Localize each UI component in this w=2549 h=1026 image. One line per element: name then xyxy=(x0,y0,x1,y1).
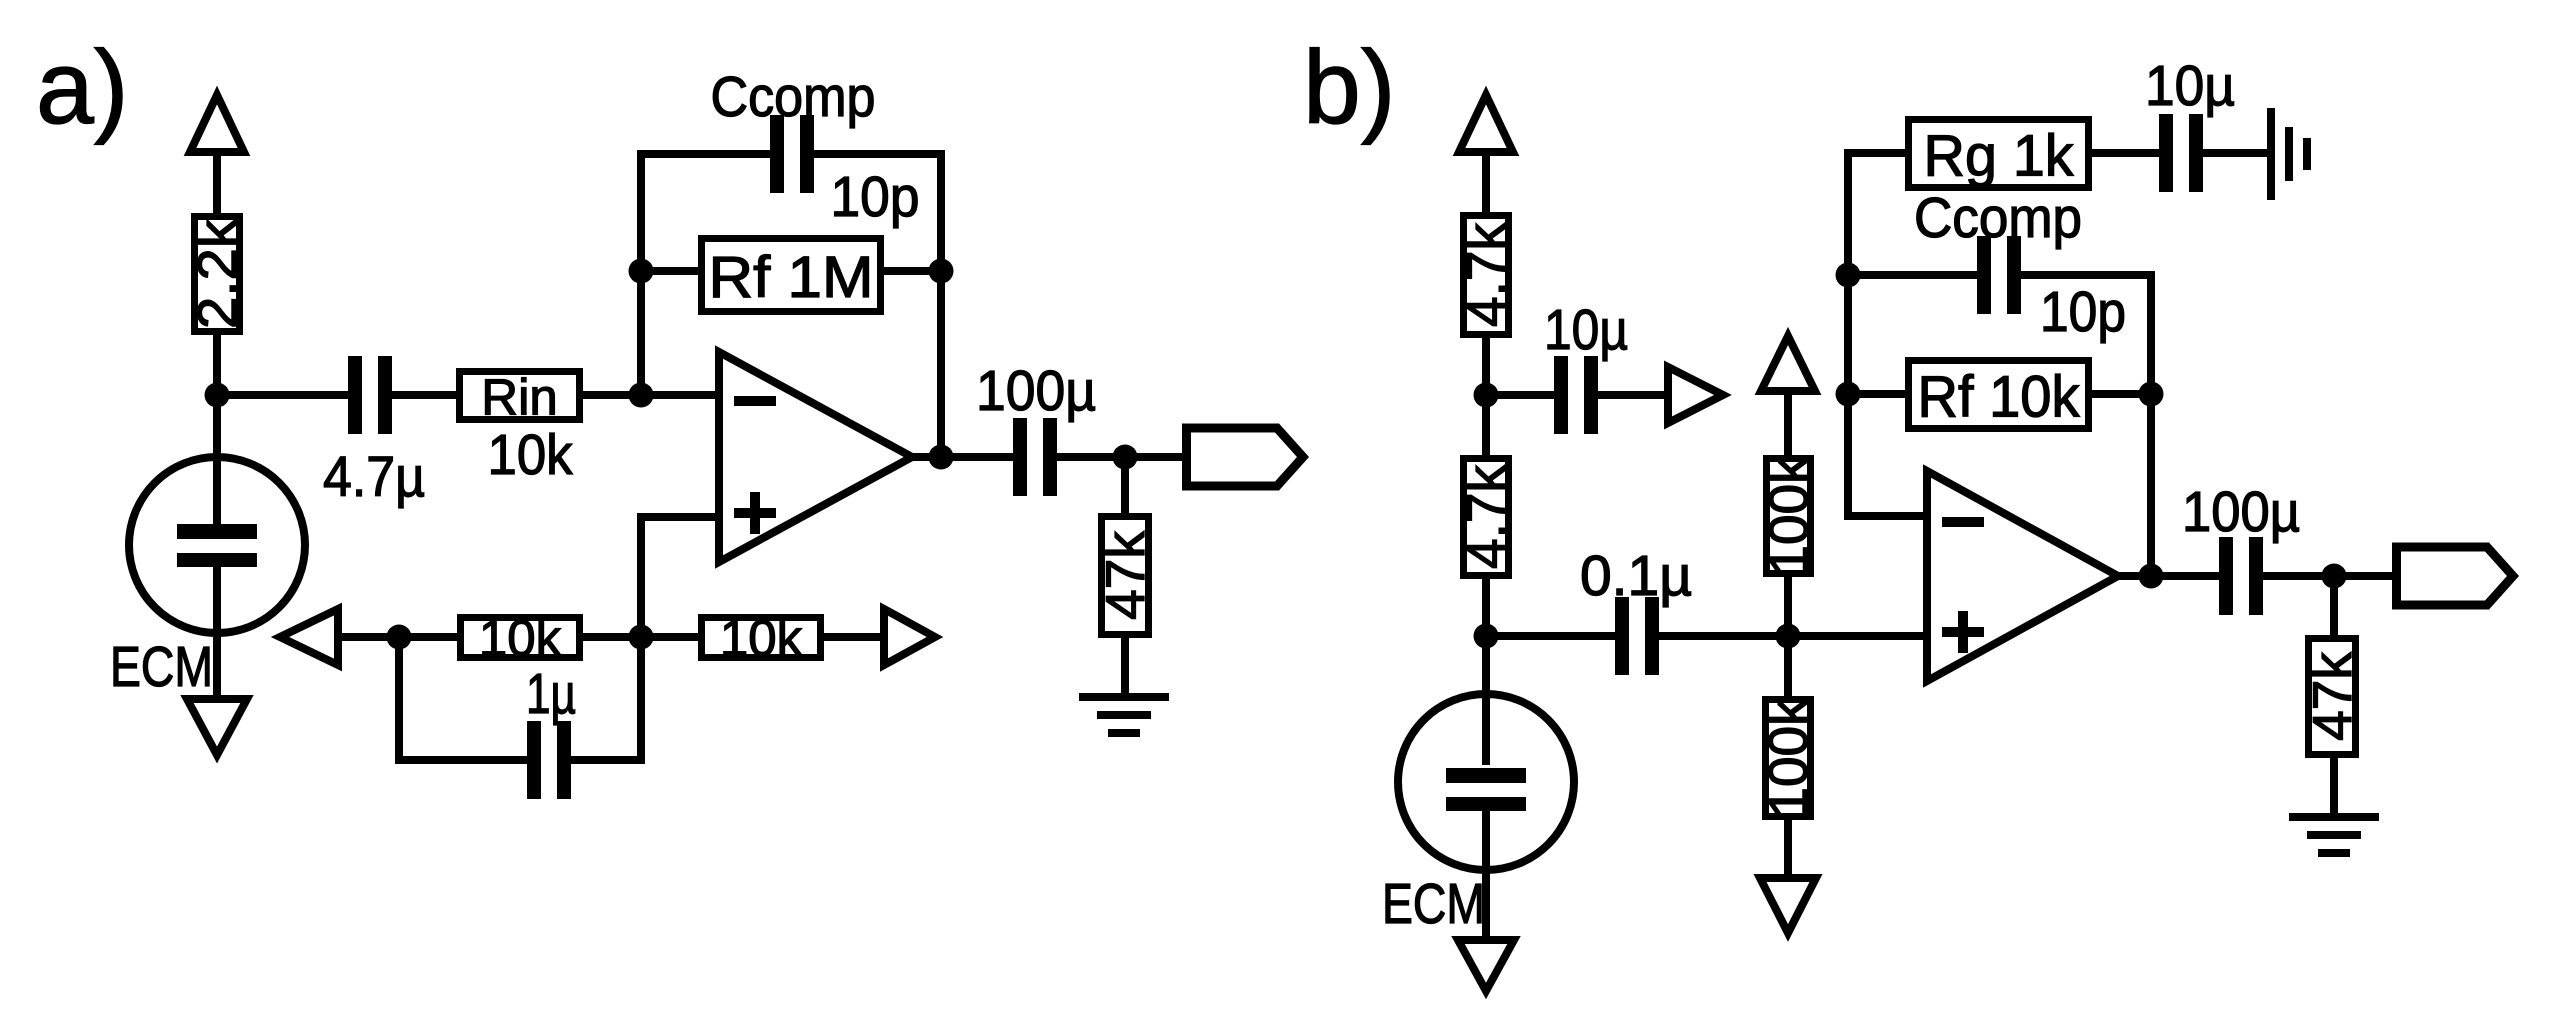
wire Ccomp to right vertical xyxy=(814,150,945,158)
node A2 inverting input junction xyxy=(629,383,654,408)
wire C 1u to bottom right xyxy=(571,756,645,764)
wire bias arrow to 100k upper xyxy=(1784,390,1792,458)
capacitor 1u (a) xyxy=(527,721,571,799)
microphone ECM (b) xyxy=(1398,694,1574,870)
svg-text:Rin: Rin xyxy=(481,369,558,426)
wire bottom left to C 1u xyxy=(395,756,527,764)
wire Rf 1M to node A4 xyxy=(884,267,941,275)
svg-text:a): a) xyxy=(36,30,128,146)
capacitor 10u (b left) xyxy=(1544,298,1628,434)
wire C 0.1u to node B3 xyxy=(1659,632,1927,640)
capacitor 100u (b) xyxy=(2182,480,2300,615)
node A7 bias left junction xyxy=(387,625,412,650)
node B1 divider junction xyxy=(1474,383,1499,408)
svg-text:Rf 10k: Rf 10k xyxy=(1918,365,2081,430)
wire ECM to ground arrow xyxy=(213,564,221,700)
node B8 output load junction xyxy=(2322,564,2347,589)
wire node A8 down (a) xyxy=(637,637,645,764)
svg-text:100k: 100k xyxy=(1758,456,1820,576)
node A6 output load junction xyxy=(1113,445,1138,470)
svg-text:100k: 100k xyxy=(1757,698,1819,818)
svg-text:10p: 10p xyxy=(2040,280,2126,344)
resistor 100k lower xyxy=(1757,698,1819,818)
bias arrow V+ (b divider) xyxy=(1761,336,1815,391)
node A3 Rf left junction xyxy=(629,259,654,284)
svg-text:47k: 47k xyxy=(2301,652,2363,741)
node A1 junction xyxy=(205,383,230,408)
wire Ccomp to right vertical (b) xyxy=(2021,271,2155,279)
svg-text:0.1µ: 0.1µ xyxy=(1580,544,1692,608)
power arrow V+ (a) xyxy=(190,95,244,152)
wire bias arrow to 10k left xyxy=(341,633,458,641)
wire right feedback vertical (b) xyxy=(2147,271,2155,576)
wire + input vertical drop (a) xyxy=(637,513,645,637)
node B6 Rf right junction xyxy=(2139,382,2164,407)
wire node A3 to Rf 1M xyxy=(641,267,698,275)
wire 10k left to node A8 xyxy=(583,633,698,641)
wire C 100u to output connector (b) xyxy=(2263,572,2394,580)
resistor Rf 1M xyxy=(702,239,881,312)
svg-text:10k: 10k xyxy=(479,610,562,667)
ground symbol rotated (b) xyxy=(2271,108,2307,200)
plus sign at non-inverting input (a) xyxy=(734,492,776,534)
wire ECM to ground arrow (b) xyxy=(1482,802,1490,940)
resistor 100k upper xyxy=(1758,456,1820,576)
capacitor 0.1u (b) xyxy=(1580,544,1692,675)
wire - input (b) xyxy=(1848,512,1927,520)
plus sign at non-inverting input (b) xyxy=(1942,611,1984,653)
svg-text:47k: 47k xyxy=(1094,531,1156,620)
wire top feedback left to Ccomp xyxy=(637,150,770,158)
svg-text:2.2k: 2.2k xyxy=(186,218,248,329)
op-amp U2 (b) xyxy=(1927,471,2118,681)
node B2 mic junction xyxy=(1474,624,1499,649)
wire node A2 up to Rf xyxy=(637,150,645,395)
wire node B2 into ECM (b) xyxy=(1482,636,1490,765)
wire opamp output to C 100u (b) xyxy=(2114,572,2219,580)
svg-text:Rg 1k: Rg 1k xyxy=(1924,124,2075,189)
resistor 10k right xyxy=(702,610,821,667)
svg-text:10µ: 10µ xyxy=(1544,298,1628,362)
op-amp U1 (a) xyxy=(719,352,912,562)
svg-text:10µ: 10µ xyxy=(2145,54,2235,118)
wire 47k to ground (b) xyxy=(2330,755,2338,817)
wire node B1 to C 10u left xyxy=(1486,391,1554,399)
wire node B3 to 100k lower xyxy=(1784,636,1792,699)
capacitor Ccomp (a) xyxy=(770,115,814,193)
resistor Rf 10k xyxy=(1909,361,2089,430)
svg-text:10k: 10k xyxy=(720,610,803,667)
wire V+ to R 4.7k upper xyxy=(1482,151,1490,215)
wire Rin to node A2 xyxy=(583,391,719,399)
svg-text:1µ: 1µ xyxy=(526,662,576,726)
wire Rg to C 10u (b right) xyxy=(2092,149,2159,157)
wire node A1 into ECM xyxy=(213,395,221,527)
svg-text:10k: 10k xyxy=(488,423,573,487)
output connector (b) xyxy=(2397,547,2514,605)
wire C 4.7u to Rin xyxy=(391,391,458,399)
wire 100k lower to ground arrow xyxy=(1784,817,1792,878)
minus sign at inverting input (b) xyxy=(1942,517,1984,527)
svg-text:Ccomp: Ccomp xyxy=(1914,186,2082,250)
bias output connector arrow (a) xyxy=(884,609,935,665)
ground symbol (b) xyxy=(2289,817,2379,853)
svg-text:4.7k: 4.7k xyxy=(1455,465,1517,569)
capacitor Ccomp (b) xyxy=(1977,236,2021,314)
wire node B5 to Rf 10k xyxy=(1848,390,1905,398)
resistor Rin xyxy=(460,369,580,426)
ground arrow below ECM (b) xyxy=(1458,940,1514,991)
wire 4.7k upper to node B1 xyxy=(1482,335,1490,395)
capacitor 4.7u xyxy=(323,356,425,509)
capacitor 10u (b right) xyxy=(2145,54,2235,192)
resistor 4.7k lower xyxy=(1455,459,1517,576)
wire node B8 down to 47k (b) xyxy=(2330,576,2338,638)
wire node B2 to C 0.1u xyxy=(1486,632,1615,640)
node A5 output junction xyxy=(929,445,954,470)
svg-text:b): b) xyxy=(1303,30,1395,146)
node B5 Rf left junction xyxy=(1836,382,1861,407)
vref output connector arrow (b) xyxy=(1668,367,1723,423)
node B7 output junction xyxy=(2139,564,2164,589)
microphone ECM (a) xyxy=(129,457,305,633)
ground arrow below ECM (a) xyxy=(187,699,247,755)
wire node A1 to C 4.7u xyxy=(217,391,349,399)
wire node B4 to Ccomp (b) xyxy=(1848,271,1977,279)
minus sign at inverting input (a) xyxy=(734,396,776,406)
wire + input horizontal (a) xyxy=(645,513,719,521)
wire Rf 10k to node B6 xyxy=(2092,390,2151,398)
node A4 Rf right junction xyxy=(929,259,954,284)
bias input connector arrow (a) xyxy=(280,609,338,665)
svg-text:ECM: ECM xyxy=(1382,872,1485,936)
resistor 2.2k xyxy=(186,217,248,332)
wire node A6 down to 47k (a) xyxy=(1121,457,1129,516)
wire 100k upper to node B3 xyxy=(1784,574,1792,636)
node A8 bias mid junction xyxy=(629,625,654,650)
wire left feedback vertical (b) xyxy=(1844,149,1852,520)
wire feedback top to Rg xyxy=(1844,149,1905,157)
resistor Rg 1k xyxy=(1909,120,2089,189)
wire R 2.2k to node A1 xyxy=(213,332,221,395)
wire C 100u to output connector (a) xyxy=(1057,453,1184,461)
wire C 10u to ground (b right) xyxy=(2203,149,2267,157)
node B4 Ccomp left junction xyxy=(1836,263,1861,288)
svg-text:100µ: 100µ xyxy=(976,359,1096,423)
wire node B1 to 4.7k lower xyxy=(1482,395,1490,458)
node B3 non-inverting junction xyxy=(1776,624,1801,649)
svg-text:Rf 1M: Rf 1M xyxy=(709,245,874,310)
ground arrow below 100k (b) xyxy=(1760,878,1816,933)
svg-text:4.7k: 4.7k xyxy=(1455,223,1517,327)
wire C 10u to vref arrow xyxy=(1598,391,1664,399)
wire V+ to R 2.2k xyxy=(213,151,221,216)
resistor 47k (a) xyxy=(1094,517,1156,635)
resistor 10k left xyxy=(461,610,580,667)
wire opamp output to C 100u (a) xyxy=(908,453,1013,461)
svg-text:10p: 10p xyxy=(831,165,920,229)
resistor 4.7k upper xyxy=(1455,216,1517,335)
wire right vertical feedback (a) xyxy=(937,150,945,457)
ground symbol (a) xyxy=(1079,697,1169,733)
svg-text:ECM: ECM xyxy=(110,635,213,699)
svg-text:100µ: 100µ xyxy=(2182,480,2300,544)
wire 10k right to bias out arrow xyxy=(824,633,881,641)
svg-text:4.7µ: 4.7µ xyxy=(323,445,425,509)
power arrow V+ (b) xyxy=(1459,95,1513,152)
wire 4.7k lower to node B2 xyxy=(1482,576,1490,636)
wire 47k to ground (a) xyxy=(1121,635,1129,697)
wire node A7 down (a) xyxy=(395,637,403,764)
resistor 47k (b) xyxy=(2301,639,2363,755)
output connector (a) xyxy=(1187,428,1304,486)
capacitor 100u (a) xyxy=(976,359,1096,496)
svg-text:Ccomp: Ccomp xyxy=(711,65,876,129)
